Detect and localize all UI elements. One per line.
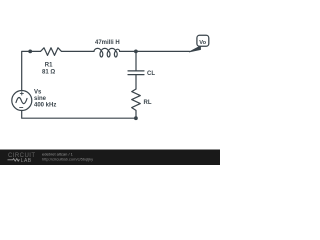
svg-text:R1: R1 bbox=[45, 63, 53, 69]
svg-text:LAB: LAB bbox=[21, 158, 32, 164]
svg-text:RL: RL bbox=[144, 100, 152, 106]
svg-text:400 kHz: 400 kHz bbox=[34, 102, 56, 108]
svg-text:47milli H: 47milli H bbox=[95, 40, 120, 46]
svg-text:sine: sine bbox=[34, 96, 47, 102]
svg-text:81 Ω: 81 Ω bbox=[42, 69, 55, 75]
svg-text:http://circuitlab.com/c/5bqljk: http://circuitlab.com/c/5bqljky bbox=[42, 157, 93, 162]
svg-text:Vs: Vs bbox=[34, 89, 42, 95]
svg-text:Vo: Vo bbox=[199, 40, 206, 46]
svg-text:CL: CL bbox=[147, 71, 155, 77]
